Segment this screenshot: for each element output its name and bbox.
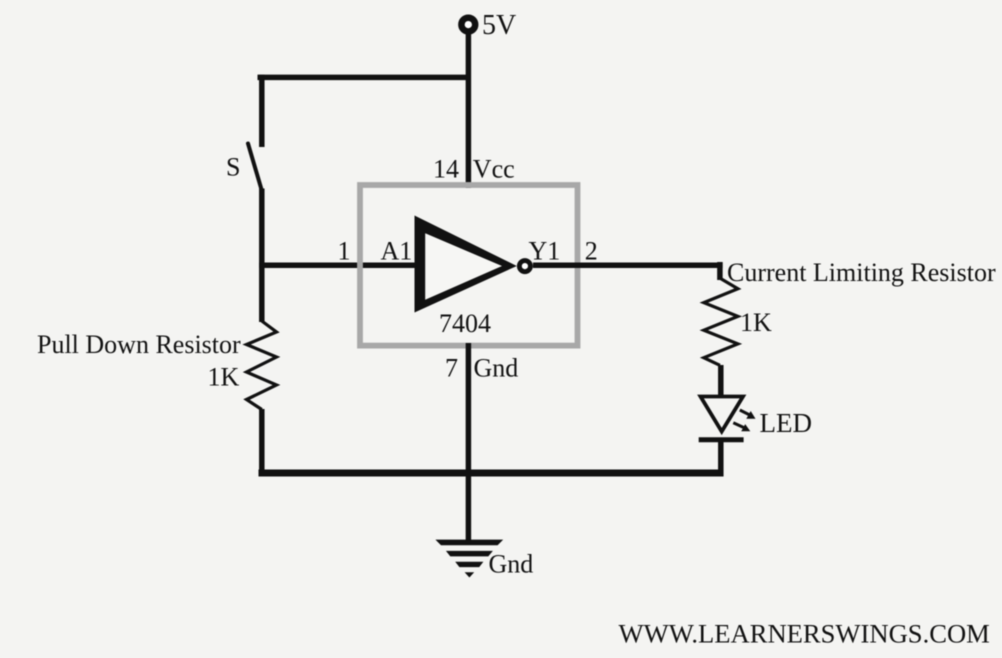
switch S blade (248, 144, 262, 190)
wire pin 1 horizontal (259, 262, 420, 268)
wire resistor to LED (718, 365, 724, 397)
svg-text:Vcc: Vcc (473, 155, 515, 184)
inverter output bubble (519, 261, 530, 272)
wire left vertical upper (to switch) (259, 75, 265, 147)
wire top horizontal (258, 75, 469, 81)
svg-text:LED: LED (760, 408, 812, 438)
op-amp style inverter triangle of U1 (415, 216, 517, 313)
wire Vcc vertical from 5V to IC box (466, 31, 472, 188)
svg-text:2: 2 (585, 236, 598, 265)
node 5V terminal (461, 18, 475, 32)
svg-text:1K: 1K (208, 363, 240, 392)
svg-text:7: 7 (445, 354, 458, 383)
wire gnd vertical from IC to ground (466, 343, 472, 541)
svg-text:7404: 7404 (439, 309, 491, 338)
svg-text:A1: A1 (381, 236, 413, 265)
LED emission arrow 2 (733, 423, 750, 432)
ground symbol (435, 540, 503, 578)
wire LED to bus (718, 442, 724, 477)
svg-text:Gnd: Gnd (474, 354, 519, 383)
svg-text:S: S (226, 153, 240, 182)
IC U1 7404 body (gray box) (360, 185, 578, 346)
wire bottom bus (259, 470, 724, 477)
wire pin 2 horizontal to right branch (533, 262, 723, 268)
svg-text:Current Limiting Resistor: Current Limiting Resistor (727, 258, 996, 287)
wire left vertical middle (switch to resistor) (259, 189, 265, 323)
svg-text:14: 14 (433, 155, 459, 184)
svg-text:Y1: Y1 (529, 236, 561, 265)
LED cathode bar (699, 437, 744, 442)
resistor R1 pull-down zigzag (247, 321, 277, 410)
LED emission arrow 1 (740, 410, 756, 419)
svg-text:WWW.LEARNERSWINGS.COM: WWW.LEARNERSWINGS.COM (619, 618, 990, 648)
wire left vertical lower (resistor to bus) (259, 409, 265, 476)
svg-text:1K: 1K (740, 308, 772, 337)
wire right vertical stub (717, 262, 723, 280)
svg-text:Pull Down Resistor: Pull Down Resistor (37, 330, 241, 359)
svg-text:Gnd: Gnd (489, 550, 534, 579)
resistor R2 current-limiting zigzag (704, 278, 738, 365)
svg-text:5V: 5V (482, 10, 516, 41)
svg-text:1: 1 (338, 236, 351, 265)
LED D1 triangle (701, 397, 744, 432)
